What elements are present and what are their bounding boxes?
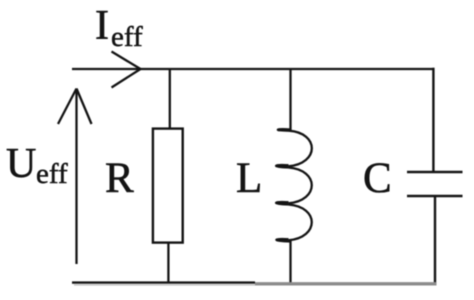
svg-text:eff: eff [36, 158, 68, 190]
label Ueff [6, 141, 68, 190]
wire: bottom bus shadow under black segment [74, 284, 255, 286]
svg-text:eff: eff [111, 21, 143, 53]
svg-text:L: L [236, 155, 262, 202]
svg-text:U: U [6, 141, 36, 187]
wire: right branch top (to capacitor) [432, 68, 434, 172]
label Ieff [95, 3, 143, 53]
wire: inductor branch bottom [289, 241, 291, 283]
capacitor C bottom plate [407, 195, 463, 198]
resistor R body [153, 129, 183, 243]
svg-text:I: I [95, 3, 109, 49]
label R [105, 155, 134, 202]
wire: right branch bottom (capacitor to bottom bus) [434, 196, 436, 285]
wire: inductor branch top [289, 69, 291, 130]
current arrow Ieff head [112, 52, 141, 88]
wire: top horizontal bus [72, 68, 435, 70]
svg-text:R: R [105, 155, 134, 202]
label C [363, 155, 392, 202]
label L [236, 155, 262, 202]
svg-text:C: C [363, 155, 392, 202]
voltage arrow Ueff (stem + open head) [58, 89, 92, 265]
wire: resistor branch top [169, 69, 171, 130]
wire: resistor branch bottom [167, 242, 169, 283]
capacitor C top plate [407, 171, 463, 174]
wire: bottom bus right (gray segment) [255, 282, 437, 285]
wire: bottom bus left (black segment) [72, 281, 255, 283]
inductor L coil [276, 129, 312, 241]
